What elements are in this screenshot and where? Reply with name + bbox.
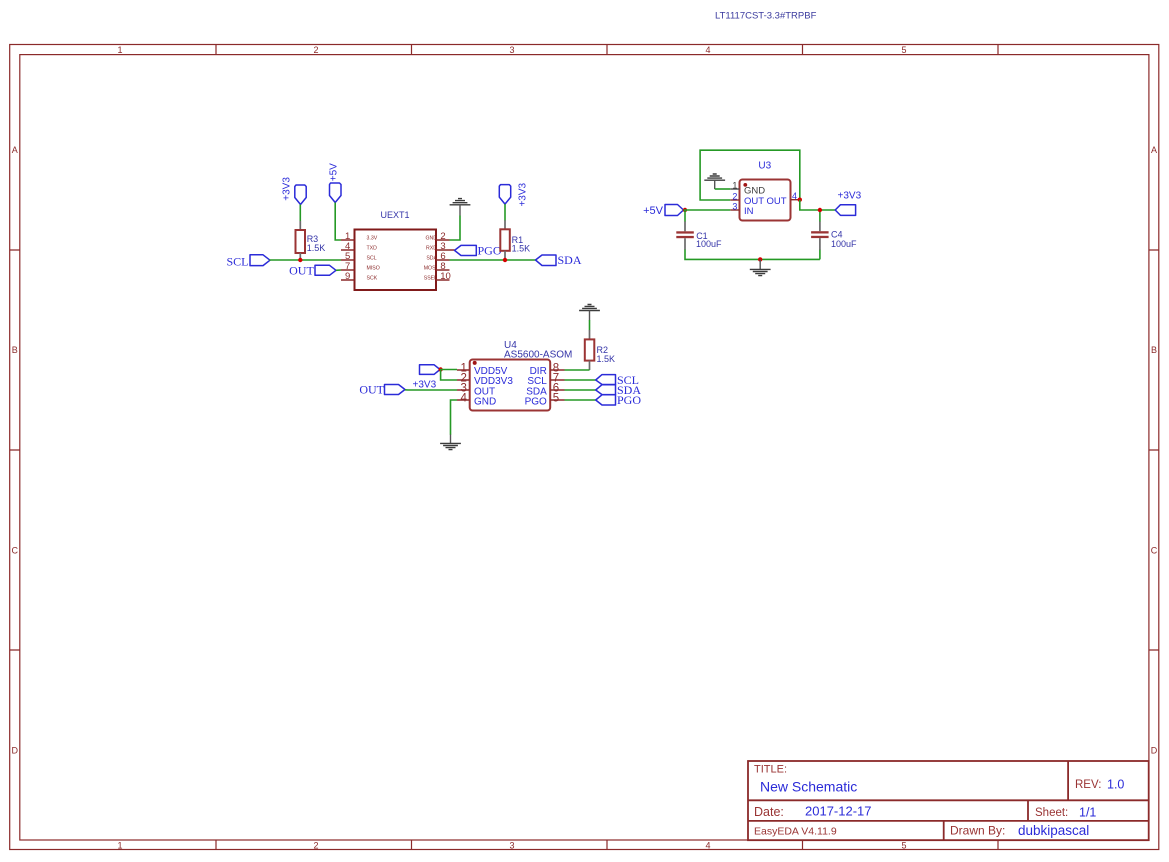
svg-text:TXD: TXD xyxy=(367,245,378,251)
U4 left pin numbers xyxy=(460,363,467,405)
net port SCL (left) xyxy=(250,255,270,266)
power flag +3V3 (left of U4 pin1) xyxy=(420,365,441,375)
frame row ticks right xyxy=(1149,250,1159,650)
junction ground rail xyxy=(758,257,762,261)
wire +5V to UEXT1 pin1 xyxy=(335,203,341,241)
svg-text:+3V3: +3V3 xyxy=(518,182,529,206)
net port SCL (right of U4) xyxy=(596,375,616,385)
svg-text:2: 2 xyxy=(732,191,737,201)
svg-text:4: 4 xyxy=(705,840,710,850)
UEXT1 left pin names xyxy=(367,235,380,281)
ground symbol (below U4) xyxy=(440,435,461,450)
wire C4 top to +3V3 rail xyxy=(819,210,821,222)
svg-text:10: 10 xyxy=(440,271,451,282)
junction +5V / C1 xyxy=(683,208,687,212)
junction R1/SDA xyxy=(503,258,507,262)
wire ground to U3 pin1 xyxy=(715,188,731,190)
net port PGO (right of UEXT1 pin3) xyxy=(455,245,477,255)
svg-text:PGO: PGO xyxy=(617,393,641,407)
wire +5V junction down to C1 xyxy=(684,210,686,222)
svg-text:4: 4 xyxy=(460,393,467,405)
resistor R3 bottom lead xyxy=(299,253,301,260)
wire U4 pin8 to R2 xyxy=(565,369,590,371)
junction C4 top xyxy=(818,208,822,212)
svg-text:SCL: SCL xyxy=(226,255,248,269)
wire C1 bottom to ground rail xyxy=(685,250,820,260)
net port SDA (right of U4) xyxy=(596,385,616,395)
svg-text:MISO: MISO xyxy=(367,265,380,271)
capacitor C1 top lead xyxy=(684,222,686,232)
svg-text:C: C xyxy=(1151,545,1158,555)
svg-text:3.3V: 3.3V xyxy=(367,235,378,241)
svg-text:SSEL: SSEL xyxy=(424,275,437,281)
svg-text:+3V3: +3V3 xyxy=(281,177,292,201)
ground symbol (above R2, inverted) xyxy=(579,305,600,321)
svg-text:A: A xyxy=(1151,145,1157,155)
U3 pin 2 stub xyxy=(730,199,739,201)
wire UEXT1 pin6 to SDA xyxy=(450,259,536,261)
resistor R3 top lead xyxy=(299,221,301,230)
wire ground to UEXT1 pin2 xyxy=(450,216,461,241)
svg-text:PGO: PGO xyxy=(478,244,502,258)
wire +3V3 flag to R1 xyxy=(504,204,506,220)
svg-text:1: 1 xyxy=(117,840,122,850)
svg-text:1.5K: 1.5K xyxy=(597,354,616,364)
svg-text:dubkipascal: dubkipascal xyxy=(1018,823,1089,838)
U4 right pin names xyxy=(525,366,548,407)
svg-text:LT1117CST-3.3#TRPBF: LT1117CST-3.3#TRPBF xyxy=(715,11,817,22)
svg-text:Drawn By:: Drawn By: xyxy=(950,824,1005,838)
junction U3 pin4 xyxy=(798,198,802,202)
resistor R1 body xyxy=(500,229,510,251)
resistor R2 top lead xyxy=(589,330,591,339)
net port OUT (left) xyxy=(315,265,336,275)
svg-text:Sheet:: Sheet: xyxy=(1035,807,1068,819)
wire C4 bottom to ground rail xyxy=(819,250,821,260)
svg-text:GND: GND xyxy=(425,235,437,241)
svg-text:SCL: SCL xyxy=(367,255,377,261)
svg-text:2: 2 xyxy=(313,840,318,850)
wire U4 pin5 to PGO xyxy=(565,399,596,401)
svg-text:A: A xyxy=(12,145,18,155)
wire U4 pin7 to SCL xyxy=(565,379,596,381)
title block Sheet column divider xyxy=(1027,800,1029,821)
title block REV column divider xyxy=(1067,761,1069,800)
frame column ticks top xyxy=(216,45,998,55)
U3 pin 1 stub (GND, dark) xyxy=(730,188,739,190)
capacitor C4 plates xyxy=(811,231,829,238)
frame row ticks left xyxy=(10,250,20,650)
svg-text:SDA: SDA xyxy=(558,253,582,267)
resistor R2 bottom lead xyxy=(589,361,591,370)
svg-text:SCK: SCK xyxy=(367,275,378,281)
svg-text:UEXT1: UEXT1 xyxy=(381,210,410,220)
net port PGO (right of U4) xyxy=(596,395,616,405)
wire ground to R2 xyxy=(589,320,591,330)
sensor U4 body xyxy=(470,360,551,411)
svg-text:2: 2 xyxy=(313,45,318,55)
wire +3V3 flag to R3 xyxy=(299,205,301,222)
wire +5V to U3 pin3 xyxy=(684,209,731,211)
svg-text:TITLE:: TITLE: xyxy=(754,764,787,776)
ground symbol (U3 GND pin, inverted) xyxy=(704,174,725,189)
resistor R2 body xyxy=(585,339,595,360)
U3 pin1 first-pin dot xyxy=(743,183,747,187)
U3 pin 4 stub xyxy=(791,199,801,201)
svg-text:1.0: 1.0 xyxy=(1107,778,1124,792)
svg-text:B: B xyxy=(1151,345,1157,355)
svg-text:5: 5 xyxy=(553,393,559,405)
frame column numbers top xyxy=(117,45,906,55)
svg-text:MOSI: MOSI xyxy=(424,265,437,271)
svg-text:Date:: Date: xyxy=(754,805,784,819)
title block row divider 1 xyxy=(748,799,1149,801)
U4 right pin numbers xyxy=(553,363,559,405)
svg-text:9: 9 xyxy=(345,271,350,282)
U3 pin 3 stub xyxy=(730,209,739,211)
power flag +5V (left of U3) xyxy=(665,205,684,216)
net port OUT (left of U4) xyxy=(385,385,406,395)
title block row divider 2 xyxy=(748,820,1149,822)
svg-text:1: 1 xyxy=(732,180,737,190)
svg-text:1.5K: 1.5K xyxy=(512,244,531,254)
svg-text:100uF: 100uF xyxy=(831,239,857,249)
wire loop U3 pin2 to pin4 (OUT) xyxy=(700,150,800,200)
title block outline xyxy=(748,761,1149,840)
U4 left pin stubs 1-4 xyxy=(457,370,470,400)
connector UEXT1 body xyxy=(355,230,437,291)
UEXT1 right pin numbers xyxy=(440,231,451,282)
power flag +3V3 (left of R3) xyxy=(295,185,306,205)
wire U3 pin4 down to +3V3 rail xyxy=(800,200,835,210)
capacitor C1 bottom lead xyxy=(684,238,686,250)
U4 left pin names xyxy=(474,366,513,407)
svg-text:+5V: +5V xyxy=(328,163,339,181)
frame row letters right xyxy=(1151,145,1158,756)
svg-text:3: 3 xyxy=(509,840,514,850)
svg-text:100uF: 100uF xyxy=(696,239,722,249)
wire OUT to pin7 xyxy=(336,269,341,271)
UEXT1 left pin stubs 1,4,5,7,9 xyxy=(341,240,355,280)
wire +3V3 junction to U4 pin2 xyxy=(441,370,457,381)
capacitor C4 top lead xyxy=(819,222,821,232)
svg-text:OUT: OUT xyxy=(359,383,384,397)
svg-text:RXD: RXD xyxy=(426,245,437,251)
svg-text:5: 5 xyxy=(901,840,906,850)
UEXT1 right pin stubs 2,6,8,10 xyxy=(436,240,450,280)
svg-text:IN: IN xyxy=(744,206,754,217)
wire +3V3 to U4 pin1 xyxy=(440,369,457,371)
svg-text:1: 1 xyxy=(117,45,122,55)
svg-text:GND: GND xyxy=(474,396,496,407)
capacitor C4 bottom lead xyxy=(819,238,821,250)
svg-text:+5V: +5V xyxy=(643,205,664,217)
power flag +3V3 (right of U3) xyxy=(835,205,855,216)
wire SCL to UEXT1 pin5 xyxy=(269,259,341,261)
resistor R1 bottom lead xyxy=(504,251,506,260)
power flag +5V (above UEXT1) xyxy=(330,183,342,203)
junction +3V3 / U4 pin1 xyxy=(438,367,442,371)
svg-text:4: 4 xyxy=(705,45,710,55)
wire OUT to U4 pin3 xyxy=(405,389,457,391)
svg-text:+3V3: +3V3 xyxy=(838,190,862,201)
frame column ticks bottom xyxy=(216,840,998,850)
svg-text:OUT: OUT xyxy=(289,263,314,277)
svg-text:EasyEDA V4.11.9: EasyEDA V4.11.9 xyxy=(754,826,837,838)
net port SDA (right) xyxy=(536,255,557,266)
svg-text:+3V3: +3V3 xyxy=(413,379,437,390)
svg-text:PGO: PGO xyxy=(525,396,547,407)
svg-text:4: 4 xyxy=(792,191,797,201)
U4 right pin stubs 5-8 xyxy=(550,370,564,400)
svg-text:SDA: SDA xyxy=(426,255,437,261)
svg-text:1.5K: 1.5K xyxy=(307,243,326,253)
resistor R1 top lead xyxy=(504,220,506,229)
svg-text:3: 3 xyxy=(509,45,514,55)
ground symbol (UEXT1 pin2, inverted) xyxy=(450,199,471,216)
svg-text:D: D xyxy=(12,746,19,756)
svg-text:U3: U3 xyxy=(758,161,771,172)
U4 pin1 first-pin dot xyxy=(473,361,477,365)
svg-text:New Schematic: New Schematic xyxy=(760,779,857,795)
wire U4 pin6 to SDA xyxy=(565,389,596,391)
power flag +3V3 (above R1) xyxy=(499,185,510,205)
capacitor C1 plates xyxy=(676,231,694,238)
frame row letters left xyxy=(12,145,19,756)
resistor R3 body xyxy=(296,230,306,253)
svg-text:5: 5 xyxy=(901,45,906,55)
wire U4 pin4 to ground xyxy=(451,400,458,435)
svg-text:3: 3 xyxy=(732,201,737,211)
UEXT1 right pin names xyxy=(424,235,438,281)
UEXT1 pin 3 stub xyxy=(436,249,455,251)
svg-text:D: D xyxy=(1151,746,1158,756)
svg-text:AS5600-ASOM: AS5600-ASOM xyxy=(504,349,572,360)
svg-text:2017-12-17: 2017-12-17 xyxy=(805,804,872,819)
svg-text:B: B xyxy=(12,345,18,355)
regulator U3 body xyxy=(740,180,791,221)
svg-text:C: C xyxy=(12,545,19,555)
svg-text:1/1: 1/1 xyxy=(1079,806,1096,820)
frame column numbers bottom xyxy=(117,840,906,850)
title block DrawnBy column divider xyxy=(943,821,945,840)
UEXT1 left pin numbers xyxy=(345,231,350,282)
junction SCL/R3 xyxy=(298,258,302,262)
svg-text:REV:: REV: xyxy=(1075,779,1101,791)
ground symbol (below C1/C4 rail) xyxy=(750,259,771,275)
